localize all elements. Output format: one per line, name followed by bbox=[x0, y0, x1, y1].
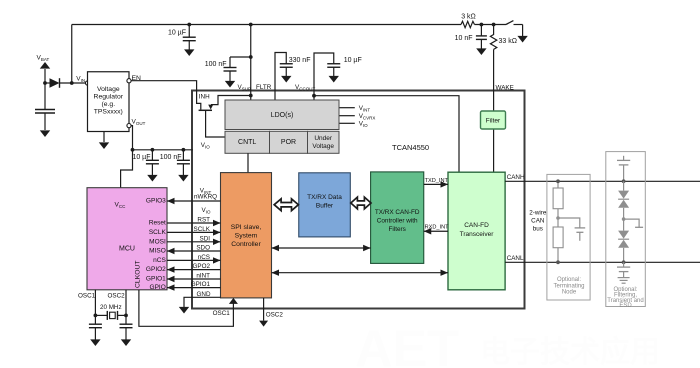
svg-text:100 nF: 100 nF bbox=[205, 61, 227, 68]
svg-text:Under: Under bbox=[314, 135, 333, 142]
svg-text:10 µF: 10 µF bbox=[344, 57, 362, 64]
svg-text:SCLK: SCLK bbox=[194, 226, 211, 233]
svg-text:OSC1: OSC1 bbox=[78, 293, 96, 300]
svg-text:Voltage: Voltage bbox=[97, 86, 120, 93]
svg-text:10 nF: 10 nF bbox=[455, 35, 473, 42]
svg-text:Reset: Reset bbox=[149, 220, 166, 227]
svg-text:OSC1: OSC1 bbox=[213, 310, 231, 317]
svg-text:Node: Node bbox=[562, 290, 577, 296]
svg-text:Optional:: Optional: bbox=[557, 277, 581, 283]
svg-text:TXD_INT: TXD_INT bbox=[425, 178, 449, 184]
svg-text:Transceiver: Transceiver bbox=[460, 231, 495, 238]
svg-text:SCLK: SCLK bbox=[149, 229, 167, 236]
svg-text:POR: POR bbox=[281, 139, 296, 146]
svg-text:WAKE: WAKE bbox=[496, 84, 514, 91]
svg-text:SPI slave,: SPI slave, bbox=[231, 224, 262, 231]
svg-text:CANL: CANL bbox=[507, 255, 524, 262]
svg-text:Filters: Filters bbox=[388, 226, 405, 233]
svg-text:GPIO2: GPIO2 bbox=[146, 266, 166, 273]
svg-text:Terminating: Terminating bbox=[553, 283, 584, 289]
svg-text:MISO: MISO bbox=[149, 248, 166, 255]
svg-text:10 µF: 10 µF bbox=[168, 30, 186, 37]
svg-text:AET: AET bbox=[355, 320, 459, 368]
svg-text:System: System bbox=[235, 232, 258, 239]
svg-text:nWKRQ: nWKRQ bbox=[194, 194, 217, 201]
svg-text:CANH: CANH bbox=[507, 174, 525, 181]
svg-text:ESD: ESD bbox=[619, 303, 632, 309]
svg-text:FLTR: FLTR bbox=[256, 84, 272, 91]
svg-text:3 kΩ: 3 kΩ bbox=[461, 14, 476, 21]
svg-text:RXD_INT: RXD_INT bbox=[425, 225, 450, 231]
svg-text:10 µF: 10 µF bbox=[132, 154, 150, 161]
svg-text:MOSI: MOSI bbox=[149, 238, 166, 245]
svg-text:TX/RX CAN-FD: TX/RX CAN-FD bbox=[375, 209, 420, 216]
svg-text:bus: bus bbox=[533, 226, 543, 233]
svg-text:2-wire: 2-wire bbox=[529, 210, 547, 217]
svg-text:Voltage: Voltage bbox=[312, 143, 334, 150]
svg-text:Buffer: Buffer bbox=[316, 203, 334, 210]
svg-text:100 nF: 100 nF bbox=[160, 154, 182, 161]
svg-text:GPO2: GPO2 bbox=[193, 263, 211, 270]
svg-text:nCS: nCS bbox=[198, 254, 210, 261]
svg-text:CLKOUT: CLKOUT bbox=[135, 260, 142, 288]
svg-text:电子技术应用: 电子技术应用 bbox=[480, 335, 660, 368]
svg-text:SDO: SDO bbox=[196, 245, 210, 252]
svg-text:TPSxxxx): TPSxxxx) bbox=[94, 108, 123, 115]
svg-text:MCU: MCU bbox=[119, 246, 135, 253]
svg-text:SDI: SDI bbox=[200, 235, 211, 242]
svg-text:Regulator: Regulator bbox=[94, 93, 124, 100]
svg-text:CAN-FD: CAN-FD bbox=[464, 222, 489, 229]
svg-text:Controller with: Controller with bbox=[377, 218, 418, 225]
svg-text:RST: RST bbox=[197, 217, 210, 224]
svg-text:GND: GND bbox=[197, 291, 211, 298]
svg-text:330 nF: 330 nF bbox=[289, 57, 311, 64]
svg-text:GPIO: GPIO bbox=[150, 284, 166, 291]
svg-text:GPIO1: GPIO1 bbox=[191, 281, 211, 288]
svg-text:33 kΩ: 33 kΩ bbox=[499, 38, 517, 45]
svg-text:TX/RX Data: TX/RX Data bbox=[307, 194, 342, 201]
svg-text:Filter: Filter bbox=[486, 118, 501, 125]
svg-text:INH: INH bbox=[199, 93, 210, 100]
svg-text:LDO(s): LDO(s) bbox=[271, 112, 294, 119]
svg-text:nINT: nINT bbox=[196, 273, 210, 280]
svg-text:20 MHz: 20 MHz bbox=[100, 304, 122, 311]
svg-text:CNTL: CNTL bbox=[238, 139, 256, 146]
svg-text:(e.g.: (e.g. bbox=[101, 101, 115, 108]
svg-text:GPIO1: GPIO1 bbox=[146, 276, 166, 283]
svg-text:CAN: CAN bbox=[531, 218, 545, 225]
svg-text:TCAN4550: TCAN4550 bbox=[392, 143, 429, 152]
svg-text:Controller: Controller bbox=[231, 241, 261, 248]
svg-text:OSC2: OSC2 bbox=[108, 293, 126, 300]
svg-text:GPIO3: GPIO3 bbox=[146, 198, 166, 205]
svg-text:nCS: nCS bbox=[153, 257, 166, 264]
svg-text:OSC2: OSC2 bbox=[266, 311, 284, 318]
